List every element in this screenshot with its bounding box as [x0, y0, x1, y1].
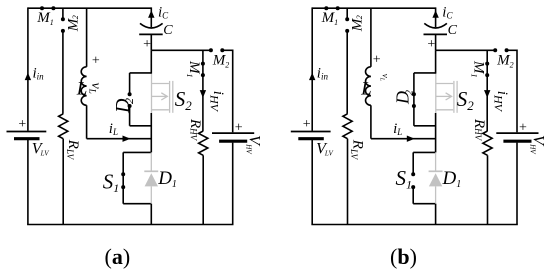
svg-text:+: + — [427, 37, 435, 52]
svg-text:+: + — [235, 120, 243, 135]
svg-text:(b): (b) — [390, 244, 417, 269]
svg-text:+: + — [373, 53, 381, 68]
svg-text:+: + — [143, 37, 151, 52]
svg-text:L: L — [76, 78, 88, 99]
svg-text:+: + — [92, 53, 100, 68]
svg-text:+: + — [519, 120, 527, 135]
svg-text:D2: D2 — [392, 90, 415, 106]
svg-text:(a): (a) — [105, 244, 131, 269]
svg-text:+: + — [18, 117, 26, 132]
svg-text:D2: D2 — [112, 98, 136, 114]
svg-text:+: + — [303, 117, 311, 132]
svg-text:L: L — [360, 78, 372, 99]
svg-text:C: C — [448, 23, 458, 38]
svg-text:C: C — [163, 23, 173, 38]
